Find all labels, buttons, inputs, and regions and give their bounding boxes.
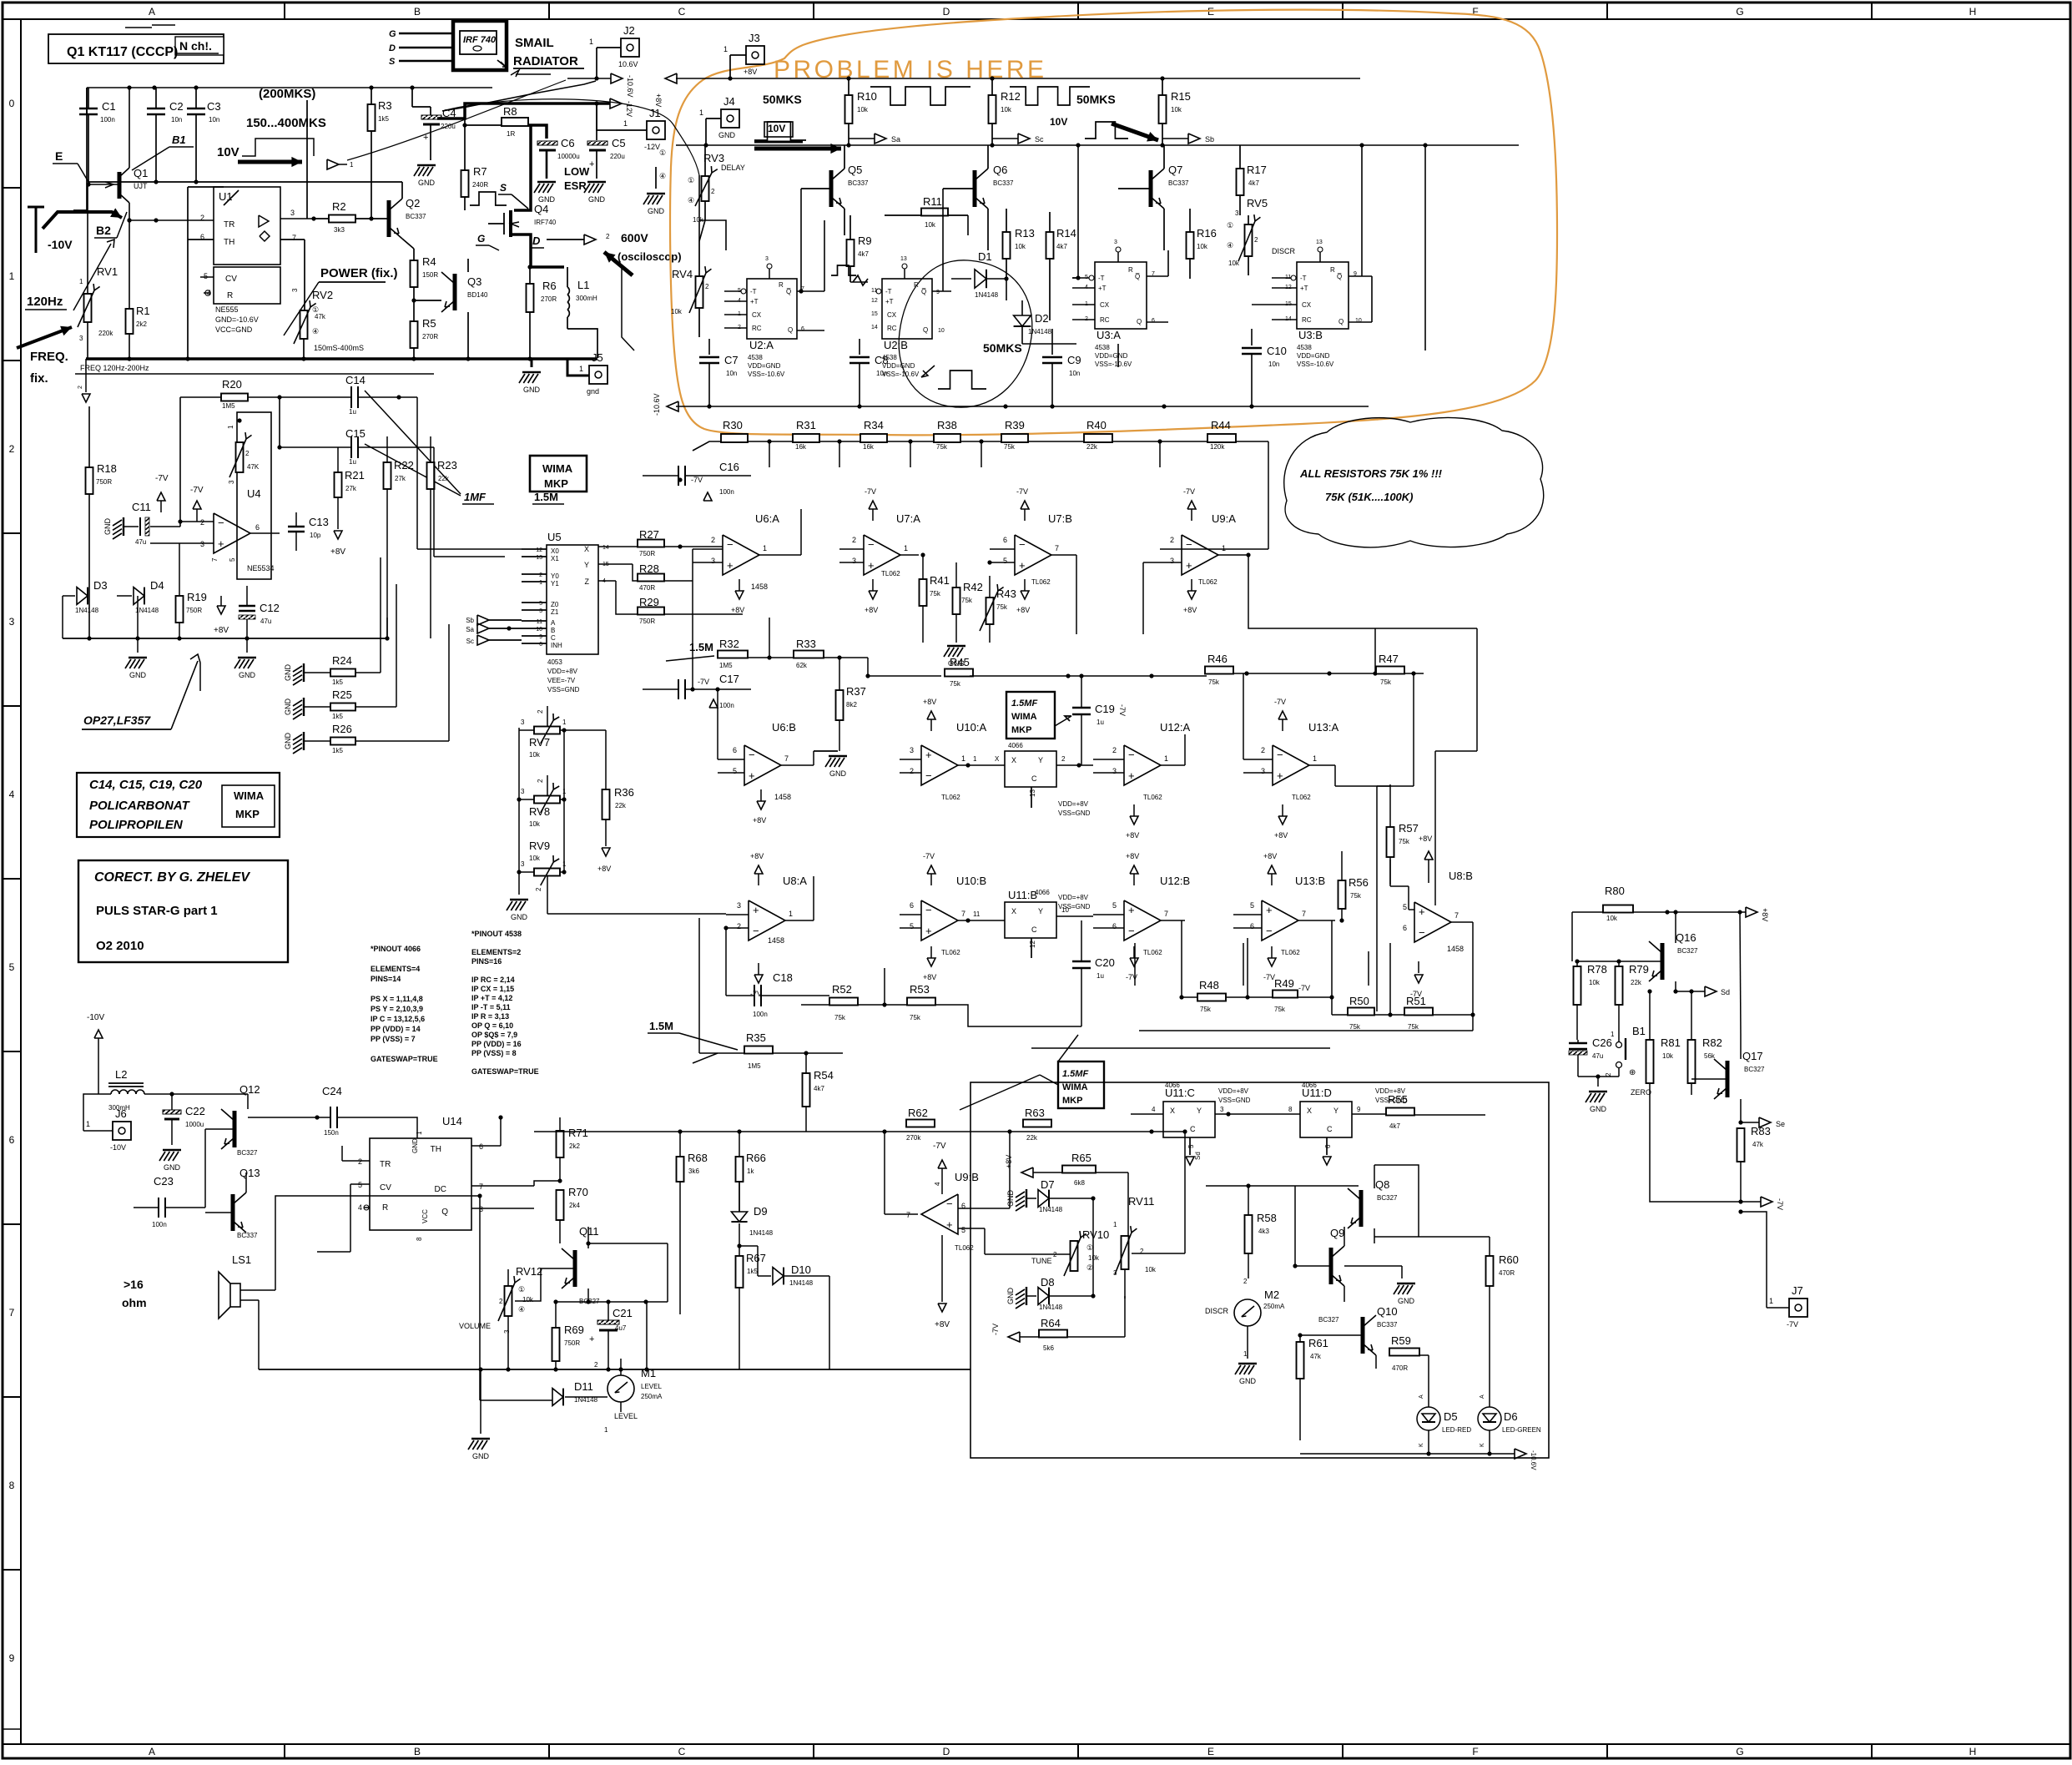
meter M2 [1234,1299,1261,1326]
svg-text:9: 9 [1357,1106,1361,1113]
speaker LS1 [230,1283,240,1307]
arrow B2 input [43,212,122,229]
svg-text:1k: 1k [747,1167,754,1175]
svg-text:1N4148: 1N4148 [749,1229,774,1237]
svg-text:3: 3 [1112,767,1117,775]
svg-text:7: 7 [784,754,789,763]
svg-text:C20: C20 [1095,956,1115,969]
svg-text:D: D [389,43,396,53]
svg-text:10n: 10n [726,370,737,377]
svg-text:1: 1 [699,108,703,117]
svg-text:3: 3 [228,480,235,484]
signal arrow Sc [992,138,1018,139]
svg-text:6: 6 [733,746,737,754]
svg-text:5: 5 [539,601,542,607]
wires U5 left feeds [417,548,522,550]
svg-text:1.5MF: 1.5MF [1062,1069,1088,1079]
svg-text:R64: R64 [1041,1317,1061,1329]
resistor R1 [126,309,134,334]
svg-text:Q: Q [923,326,928,334]
resistor R53 [907,998,935,1006]
svg-text:DC: DC [435,1185,446,1194]
ground RV3 [655,167,657,189]
svg-text:ALL RESISTORS 75K 1% !!!: ALL RESISTORS 75K 1% !!! [1299,467,1443,480]
svg-text:12: 12 [536,547,542,553]
wire thick -12V bus [73,88,87,210]
potentiometer RV2 [300,310,308,339]
svg-text:U14: U14 [442,1115,462,1127]
capacitor C16 [678,466,679,486]
resistor R48 [1197,994,1226,1001]
svg-text:Q̅: Q̅ [921,288,926,295]
svg-text:R53: R53 [910,983,930,996]
svg-text:gnd: gnd [587,387,599,396]
svg-text:250mA: 250mA [641,1393,663,1400]
svg-text:R67: R67 [746,1252,766,1264]
svg-text:3: 3 [291,288,299,292]
arrow -10.6V left [667,401,678,411]
svg-text:1N4148: 1N4148 [975,291,999,299]
svg-text:3: 3 [521,860,525,868]
svg-text:+8V: +8V [1263,852,1277,860]
svg-text:H: H [1969,6,1977,18]
svg-text:TL062: TL062 [941,949,960,956]
svg-text:+: + [1419,905,1425,918]
resistor R19 [176,596,184,623]
ground C4 [417,164,436,166]
svg-text:100n: 100n [152,1221,167,1228]
analog switch U11:A 4066 [1005,751,1056,787]
resistor R23 [427,462,435,489]
resistor R43 preset [986,598,994,624]
svg-text:270R: 270R [422,333,438,340]
resistor R54 [803,1073,810,1107]
wire RV3-RV4 link [699,220,705,241]
diode D3 [63,595,75,597]
svg-text:X: X [1170,1107,1175,1115]
svg-text:C: C [551,634,556,642]
svg-text:R16: R16 [1197,227,1217,240]
svg-text:+: + [423,133,428,143]
svg-text:Q13: Q13 [239,1167,260,1179]
svg-text:10k: 10k [1662,1052,1674,1060]
svg-text:+8V: +8V [1183,606,1197,614]
svg-text:-7V: -7V [1410,990,1422,998]
svg-text:7: 7 [9,1307,15,1319]
svg-text:C: C [1327,1125,1333,1133]
svg-text:10k: 10k [1088,1254,1100,1262]
svg-text:5: 5 [1112,901,1117,910]
svg-text:C17: C17 [719,673,739,685]
svg-text:Q2: Q2 [406,197,420,209]
diode D10 [739,1245,758,1247]
svg-text:3: 3 [1235,209,1239,217]
svg-text:10: 10 [938,328,945,334]
svg-text:470R: 470R [639,584,655,592]
svg-text:R: R [382,1203,388,1213]
svg-text:D2: D2 [1035,312,1049,325]
svg-text:1458: 1458 [774,793,791,801]
svg-text:-7V: -7V [1274,698,1286,706]
svg-text:G: G [477,233,485,245]
arrow to osciloscop [604,252,633,275]
capacitor C15 [350,436,352,458]
svg-text:FREQ.: FREQ. [30,350,68,364]
svg-text:U7:A: U7:A [896,512,920,525]
resistor R65 [1062,1166,1096,1173]
svg-text:DELAY: DELAY [721,164,745,172]
resistor R59 [1389,1349,1419,1356]
svg-text:U1: U1 [219,190,233,203]
svg-text:75k: 75k [1274,1006,1286,1013]
svg-text:47k: 47k [1310,1353,1322,1360]
svg-text:MKP: MKP [1062,1096,1082,1106]
svg-text:R18: R18 [97,462,117,475]
svg-text:47u: 47u [1592,1052,1603,1060]
svg-text:R38: R38 [937,419,957,431]
svg-text:1: 1 [539,580,542,586]
resistor R40 [1084,434,1112,442]
signal arrow Sd out [1676,991,1705,992]
svg-text:3: 3 [200,540,204,548]
svg-text:+: + [749,769,755,782]
svg-text:④: ④ [688,196,694,204]
svg-text:−: − [1419,926,1425,939]
svg-text:R50: R50 [1349,995,1369,1007]
svg-text:R: R [227,291,233,300]
svg-text:RV5: RV5 [1247,197,1268,209]
svg-text:②: ② [1086,1263,1093,1272]
svg-text:MKP: MKP [1011,725,1031,735]
resistor R38 [934,434,960,442]
svg-text:R19: R19 [187,591,207,603]
svg-text:R9: R9 [858,234,872,247]
svg-text:R42: R42 [963,581,983,593]
resistor R61 [1297,1342,1304,1379]
arrow +8V left [665,73,677,83]
svg-text:INH: INH [551,642,562,649]
svg-text:④: ④ [659,172,666,180]
svg-text:C8: C8 [875,354,889,366]
wire LED rail -10.6V [1300,1453,1515,1455]
svg-text:VDD=+8V: VDD=+8V [1218,1087,1249,1095]
svg-text:U12:A: U12:A [1160,721,1190,734]
svg-text:2: 2 [537,779,544,783]
svg-text:BC327: BC327 [1318,1316,1339,1324]
IC U3:A 4538 [1095,262,1147,329]
svg-text:220k: 220k [98,330,113,337]
svg-text:+8V: +8V [597,865,611,873]
svg-text:10k: 10k [1606,915,1618,922]
svg-text:J3: J3 [749,32,760,44]
svg-text:-10.6V: -10.6V [653,393,661,416]
connector J3 [746,46,764,64]
svg-text:C24: C24 [322,1085,342,1097]
svg-text:BC327: BC327 [1744,1066,1765,1073]
svg-text:BC327: BC327 [1677,947,1698,955]
resistor R60 [1486,1256,1494,1286]
svg-text:Y: Y [584,561,589,569]
svg-text:2: 2 [539,572,542,578]
svg-text:J2: J2 [623,24,635,37]
pulse S [470,192,507,205]
svg-text:7: 7 [292,234,296,242]
svg-text:CX: CX [1302,301,1312,309]
capacitor C22 [171,1094,173,1110]
svg-text:270R: 270R [541,295,557,303]
svg-text:-12V: -12V [644,143,660,151]
svg-text:Sb: Sb [466,617,474,624]
svg-text:GND: GND [284,733,292,750]
svg-text:8: 8 [416,1237,423,1241]
svg-text:①: ① [659,149,666,157]
svg-text:+: + [589,159,594,169]
svg-text:C2: C2 [169,100,184,113]
svg-text:Z0: Z0 [551,601,559,608]
svg-text:2: 2 [594,1361,598,1369]
svg-text:R22: R22 [394,459,414,472]
svg-text:J5: J5 [592,351,603,364]
svg-text:7: 7 [1164,910,1168,918]
svg-text:BC337: BC337 [1168,179,1189,187]
wire R80 to R78 [1572,912,1577,935]
svg-text:C22: C22 [185,1105,205,1117]
svg-text:1N4148: 1N4148 [789,1279,814,1287]
transistor Q4 IRF740 mosfet [509,210,512,237]
svg-text:-7V: -7V [1787,1320,1798,1329]
svg-text:-10.6V: -10.6V [1530,1450,1537,1470]
svg-text:ZERO: ZERO [1631,1088,1651,1097]
capacitor C26 [1569,1042,1587,1044]
svg-text:1: 1 [579,365,583,373]
signal arrow Se out [1741,1122,1759,1123]
svg-text:2: 2 [910,767,914,775]
svg-text:+T: +T [885,298,894,305]
resistor R39 [1001,434,1028,442]
svg-text:4: 4 [934,1182,941,1186]
connector J5 [589,366,607,384]
svg-text:50MKS: 50MKS [1076,93,1116,106]
box 1.5MF WIMA MKP [1006,692,1055,739]
svg-text:NE5534: NE5534 [247,564,275,572]
svg-text:IP RC = 2,14: IP RC = 2,14 [471,976,515,984]
svg-text:220u: 220u [441,123,456,130]
svg-text:TL062: TL062 [1143,949,1162,956]
svg-text:①: ① [1227,221,1233,229]
svg-text:3: 3 [9,616,15,628]
svg-text:BC327: BC327 [1377,1194,1398,1202]
svg-text:PP (VSS) = 8: PP (VSS) = 8 [471,1049,517,1057]
svg-text:+T: +T [1098,285,1107,292]
svg-text:GND: GND [1398,1297,1415,1305]
svg-text:B: B [551,627,555,634]
svg-text:U9:A: U9:A [1212,512,1236,525]
svg-text:12: 12 [871,298,878,304]
svg-text:Q3: Q3 [467,275,481,288]
svg-text:300mH: 300mH [576,295,597,302]
svg-text:100n: 100n [719,702,734,709]
svg-text:R1: R1 [136,305,150,317]
svg-text:PULS STAR-G part 1: PULS STAR-G part 1 [96,904,218,918]
ground RV9 [510,899,528,900]
svg-text:R15: R15 [1171,90,1191,103]
resistor R6 [527,284,534,312]
svg-text:VDD=GND: VDD=GND [1297,352,1330,360]
svg-text:75k: 75k [1208,678,1220,686]
svg-text:R11: R11 [923,195,942,208]
svg-text:−: − [925,769,932,782]
svg-text:16k: 16k [863,443,875,451]
svg-text:E: E [1207,1746,1214,1757]
svg-text:6: 6 [255,523,260,532]
resistor R78 [1574,966,1581,1005]
svg-text:SMAIL: SMAIL [515,36,554,50]
svg-text:13: 13 [536,555,542,561]
svg-text:J4: J4 [723,95,735,108]
resistor R66 [736,1157,744,1182]
wire long mid bus [63,638,389,639]
svg-text:7: 7 [211,557,219,562]
svg-text:RC: RC [887,325,897,332]
ground M2 [1238,1363,1257,1364]
svg-text:C: C [1190,1125,1196,1133]
diode D5 LED [1417,1407,1440,1430]
svg-text:D: D [943,6,950,18]
svg-text:R81: R81 [1661,1036,1681,1049]
resistor R67 [736,1256,744,1288]
IC U3:B 4538 [1297,262,1349,329]
wire bottom rail [259,1369,970,1370]
IC U5 4053 [547,545,598,654]
output arrow 2 [584,234,596,245]
svg-text:TL062: TL062 [941,794,960,801]
wire ladder verticals [769,441,770,467]
svg-text:11: 11 [537,619,542,625]
svg-text:R46: R46 [1207,653,1228,665]
svg-text:C: C [1031,774,1037,783]
svg-text:IP R = 3,13: IP R = 3,13 [471,1012,509,1021]
svg-text:Sa: Sa [466,626,474,633]
svg-text:2k4: 2k4 [569,1202,580,1209]
resistor R25 gnd [303,698,305,716]
svg-text:22k: 22k [438,475,450,482]
svg-text:-7V: -7V [923,852,935,860]
svg-text:RC: RC [1100,316,1110,324]
diode D6 LED [1478,1407,1501,1430]
svg-text:250mA: 250mA [1263,1303,1285,1310]
svg-text:7: 7 [1055,544,1059,552]
svg-text:R56: R56 [1349,876,1369,889]
svg-text:-7V: -7V [991,1324,1000,1335]
svg-text:50MKS: 50MKS [983,341,1022,355]
svg-text:R82: R82 [1702,1036,1722,1049]
svg-text:Q4: Q4 [534,203,548,215]
svg-text:16k: 16k [795,443,807,451]
svg-text:+: + [218,537,224,550]
svg-text:U8:A: U8:A [783,875,807,887]
big box bottom right block [970,1082,1549,1458]
svg-text:RV10: RV10 [1082,1228,1109,1241]
svg-text:1458: 1458 [1447,945,1464,953]
svg-text:6: 6 [479,1142,483,1151]
svg-text:C15: C15 [345,427,365,440]
wire bus -10.6V bottom of section [676,406,1369,407]
svg-text:NE555: NE555 [215,305,239,314]
svg-text:10k: 10k [671,308,683,315]
svg-text:+8V: +8V [1016,606,1030,614]
svg-text:3: 3 [737,901,741,910]
svg-text:-12V: -12V [625,101,633,117]
svg-text:4k7: 4k7 [1389,1122,1400,1130]
svg-text:Q1: Q1 [134,167,148,179]
svg-text:7: 7 [1454,911,1459,920]
svg-text:75k: 75k [996,603,1008,611]
wires U14 links [479,1196,481,1400]
svg-text:7: 7 [961,910,965,918]
capacitor C12 [239,605,255,607]
svg-text:GND: GND [164,1163,181,1172]
svg-text:U10:A: U10:A [956,721,986,734]
svg-text:+8V: +8V [1274,831,1288,840]
svg-text:1.5M: 1.5M [649,1020,673,1032]
svg-text:D10: D10 [791,1263,811,1276]
resistor R22 [384,462,391,489]
svg-text:R44: R44 [1211,419,1231,431]
wire bus -12V from C4 to J2 region [86,88,88,114]
svg-text:-T: -T [1098,275,1105,282]
svg-text:D11: D11 [574,1380,593,1393]
svg-text:CV: CV [380,1183,391,1193]
svg-text:5: 5 [1403,903,1407,911]
svg-text:A: A [1480,1394,1485,1399]
potentiometer RV7 [534,727,560,734]
ground C22 [163,1149,181,1151]
svg-text:RC: RC [752,325,762,332]
svg-text:GND: GND [1590,1105,1607,1113]
svg-text:+: + [753,904,759,916]
svg-text:GND: GND [239,671,256,679]
svg-text:1M5: 1M5 [748,1062,761,1070]
svg-text:6: 6 [1152,318,1155,324]
svg-text:1: 1 [1113,1221,1117,1228]
capacitor C6 low esr [537,141,557,145]
svg-text:2: 2 [737,922,741,930]
svg-text:TR: TR [224,220,234,229]
svg-text:TL062: TL062 [1198,578,1217,586]
note box WIMA MKP [530,456,587,492]
svg-text:+8V: +8V [923,973,936,981]
svg-text:75k: 75k [1408,1023,1419,1031]
capacitor C10 [1251,329,1253,345]
orange annotation loop [670,10,1557,436]
resistor R70 [557,1190,564,1220]
svg-text:U3:B: U3:B [1298,329,1323,341]
svg-text:-10.6V: -10.6V [626,75,634,98]
svg-text:K: K [1480,1443,1485,1447]
svg-text:R21: R21 [345,469,365,482]
svg-text:1u: 1u [1096,972,1104,980]
svg-text:50MKS: 50MKS [763,93,802,106]
svg-text:1k5: 1k5 [747,1268,758,1275]
svg-text:8k2: 8k2 [846,701,857,709]
svg-text:4u7: 4u7 [615,1324,627,1332]
svg-text:D4: D4 [150,579,164,592]
svg-text:GND: GND [523,386,541,394]
connector J2 [621,38,639,57]
svg-text:−: − [1019,538,1026,551]
svg-text:Sd: Sd [1721,988,1730,996]
svg-text:1N4148: 1N4148 [1039,1304,1063,1311]
